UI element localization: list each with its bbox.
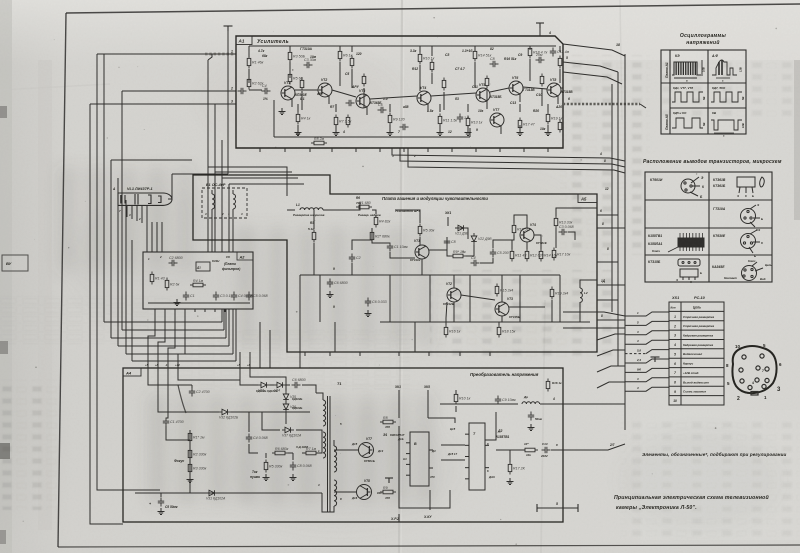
wire — [395, 210, 420, 223]
DIP pins — [680, 233, 702, 251]
wire — [335, 125, 337, 129]
wire — [455, 228, 468, 239]
wire — [398, 514, 400, 522]
wire net 3 — [111, 159, 192, 161]
wire — [239, 372, 241, 380]
wire — [370, 96, 417, 99]
wire net 1 to A1 pin 1 — [104, 53, 236, 55]
wire — [455, 390, 457, 394]
resistor A1 bottom 7 — [518, 118, 522, 131]
wire — [447, 217, 449, 226]
wire target to cable — [227, 30, 229, 54]
wire vidicon pin — [131, 205, 133, 219]
ground — [528, 424, 535, 431]
resistor R9 — [450, 254, 466, 258]
wire pin — [154, 309, 156, 312]
capacitor — [457, 114, 463, 123]
wire riser 5 to A2 — [232, 309, 234, 354]
diode V33 — [258, 382, 270, 388]
wire — [580, 280, 597, 288]
deflection coil L2 — [233, 194, 236, 209]
wire — [534, 235, 541, 249]
wire — [158, 372, 219, 412]
resistor A1 mid 5 — [442, 78, 446, 91]
shield terminal target — [224, 26, 233, 31]
wire — [529, 46, 531, 48]
inductor L1 — [300, 208, 323, 210]
wire — [431, 73, 433, 84]
wire — [333, 440, 335, 446]
wire — [547, 104, 549, 112]
shielded cable into A1 — [205, 53, 234, 55]
wire — [297, 125, 299, 129]
wire — [269, 330, 271, 368]
wire riser 6 to A2 — [235, 309, 237, 361]
wire v x215 — [214, 104, 216, 252]
wire — [335, 104, 337, 112]
wire — [239, 352, 241, 368]
capacitor — [349, 254, 355, 263]
capacitor C4 — [471, 260, 480, 266]
ground — [295, 129, 302, 136]
wire — [467, 125, 469, 129]
wire — [319, 275, 321, 322]
transistor VT2 — [447, 288, 461, 302]
wire — [559, 46, 561, 52]
wire — [447, 248, 450, 256]
capacitor — [346, 100, 355, 106]
wire — [328, 96, 330, 104]
wire feed 3 — [625, 331, 669, 335]
wire — [334, 449, 358, 451]
ground — [387, 129, 394, 136]
diode V32 — [219, 409, 231, 415]
wire — [287, 209, 295, 211]
wire — [285, 412, 287, 424]
resistor A1 top 7 — [528, 46, 532, 59]
shielded cable out — [563, 103, 640, 106]
wire — [289, 62, 291, 78]
resistor A1 top 3 — [338, 49, 342, 62]
capacitor C8 — [490, 61, 499, 67]
wire pin — [398, 352, 400, 356]
wire — [427, 104, 429, 112]
wire pin — [547, 148, 549, 152]
pinout drawing КТ630 — [741, 230, 761, 253]
wire — [248, 69, 250, 83]
wire pin — [459, 352, 461, 356]
wire — [526, 242, 528, 249]
wire — [510, 449, 525, 451]
wire riser 2 to A2 — [225, 309, 227, 338]
wire pin — [164, 309, 166, 312]
wire video feed — [625, 353, 646, 355]
wire — [288, 452, 293, 454]
resistor R5 — [418, 224, 422, 237]
wire right bus 2 — [617, 72, 619, 366]
wire — [419, 46, 421, 50]
wire — [297, 104, 299, 112]
wire — [97, 53, 104, 55]
wire — [232, 190, 234, 194]
wire — [431, 93, 476, 96]
wire — [597, 214, 618, 216]
ground — [437, 129, 444, 136]
wire net 4 to A1 — [90, 103, 236, 105]
wire — [493, 235, 514, 248]
wire — [259, 322, 261, 368]
ground — [290, 474, 297, 481]
wire — [559, 69, 561, 83]
resistor A1 bottom 3 — [346, 115, 350, 128]
wire staircase h3 — [122, 329, 224, 331]
wire feed 7 — [625, 368, 669, 372]
resistor R9 — [380, 490, 396, 494]
resistor A2 R1 — [150, 272, 154, 285]
wire left bus v5 — [125, 200, 127, 354]
wire — [399, 488, 450, 508]
IC D1 К155ЛА3 — [406, 432, 433, 486]
resistor R11 — [546, 379, 550, 392]
resistor R6 — [272, 451, 288, 455]
resistor R1 — [356, 205, 372, 209]
capacitor C2 — [327, 279, 333, 288]
wire — [351, 263, 353, 275]
wire — [597, 382, 625, 388]
wire — [427, 390, 429, 418]
wire — [439, 125, 441, 129]
wire — [249, 352, 251, 368]
wire — [474, 46, 476, 50]
wire — [248, 412, 250, 432]
wire middle rail — [300, 274, 560, 276]
wire — [249, 444, 258, 453]
wire pin — [204, 309, 206, 312]
wire — [490, 88, 509, 92]
wire — [352, 240, 372, 250]
wire — [323, 202, 360, 210]
capacitor C9 — [495, 396, 501, 405]
wire — [485, 412, 496, 440]
wire — [501, 275, 503, 302]
wire — [429, 490, 431, 510]
wire vidicon pin — [121, 205, 123, 215]
wire — [419, 65, 421, 91]
wire — [453, 302, 455, 322]
wire A2 to A4 — [158, 309, 165, 368]
wire A2 to A4 — [168, 309, 175, 368]
wire — [597, 227, 625, 229]
wire — [556, 208, 597, 216]
wire left bus v6 — [131, 240, 133, 361]
wire — [579, 302, 581, 322]
transistor VT1 — [281, 86, 295, 100]
resistor A1 mid 4 — [362, 74, 366, 87]
wire — [414, 322, 416, 352]
T1 secondary winding 2 — [334, 480, 337, 506]
wire — [563, 62, 618, 72]
wire 18 — [563, 44, 625, 56]
wire — [551, 300, 553, 322]
ground — [263, 474, 270, 481]
resistor A1 bottom 6 — [466, 116, 470, 129]
resistor R13 — [554, 216, 558, 229]
wire — [466, 245, 474, 256]
capacitor C8 — [290, 462, 296, 471]
transistor VT1 — [415, 245, 429, 259]
wire to middle block — [208, 167, 287, 196]
wire pin — [355, 148, 357, 152]
wire — [446, 302, 447, 325]
block A5 box (blanking and sensitivity modulation board) — [193, 175, 597, 352]
wire — [461, 295, 495, 300]
capacitor C2 — [189, 388, 195, 397]
wire pin — [284, 148, 286, 152]
wire — [597, 299, 618, 301]
wire pin — [523, 148, 525, 152]
block A2 box (filter board) — [143, 252, 253, 309]
wire — [455, 406, 457, 412]
capacitor C5 — [158, 498, 164, 507]
IC D2 К155ТВ1 — [465, 423, 489, 490]
wire — [496, 449, 510, 451]
resistor R15 — [495, 284, 499, 297]
wire — [250, 372, 286, 385]
resistor R8 — [311, 141, 327, 145]
capacitor C5 — [490, 249, 496, 258]
wire pin — [304, 352, 306, 356]
wire — [597, 261, 618, 263]
resistor A1 top 8 — [558, 56, 562, 69]
T1 secondary winding 1 — [334, 446, 337, 472]
wire — [178, 372, 258, 385]
T1 primary winding lower — [323, 432, 326, 458]
wire left bus v1 — [103, 54, 105, 322]
wire pin — [428, 352, 430, 356]
resistor A1 bottom 1 — [296, 112, 300, 125]
wire — [474, 62, 476, 88]
wire — [389, 275, 391, 322]
wire staircase h4 — [118, 345, 229, 347]
wire — [519, 125, 521, 129]
resistor A1 bottom 2 — [334, 115, 338, 128]
resistor A2 R4 — [190, 283, 206, 287]
capacitor C9 — [536, 57, 545, 63]
wire right bus main — [624, 54, 626, 430]
scale bar — [537, 504, 578, 512]
wire — [332, 90, 356, 97]
wire — [500, 126, 502, 134]
shield terminal — [385, 478, 393, 483]
capacitor C6 — [292, 382, 301, 388]
wire middle rail 2 — [380, 321, 590, 323]
wire — [441, 444, 465, 446]
wire — [156, 222, 158, 252]
block A4 box (voltage converter) — [123, 368, 563, 522]
wire staircase h1 — [104, 321, 222, 323]
wire — [486, 90, 488, 108]
wire — [339, 46, 341, 50]
wire — [563, 72, 622, 84]
wire feed 2 — [625, 321, 669, 325]
pinout table — [645, 172, 772, 282]
wire — [597, 350, 625, 356]
wire — [208, 54, 212, 60]
wire pin — [475, 148, 477, 152]
wire — [509, 450, 511, 462]
connector XS1 РС-10 table — [669, 302, 724, 405]
wire — [172, 173, 228, 175]
capacitor A2 C2 — [169, 260, 178, 266]
wire — [519, 94, 521, 102]
resistor A1 bottom 4 — [388, 113, 392, 126]
wire — [509, 306, 545, 308]
resistor A1 mid 3 — [300, 78, 304, 91]
resistor R2 — [370, 230, 374, 243]
wire — [222, 177, 298, 179]
wire right bus 3 — [611, 84, 613, 312]
diode V35 — [283, 391, 289, 403]
transistor VT4 — [520, 228, 534, 242]
resistor R11 — [510, 249, 514, 262]
wire — [286, 384, 290, 386]
wire pin — [147, 368, 149, 372]
diode V22 — [471, 233, 477, 245]
resistor A1 bottom 8 — [546, 112, 550, 125]
ground — [327, 291, 334, 298]
resistor A1 top 6 — [473, 49, 477, 62]
wire — [597, 284, 625, 286]
wire — [467, 104, 469, 112]
capacitor C4 — [246, 434, 252, 443]
wire vidicon pin — [146, 205, 148, 225]
wire pin — [249, 368, 251, 372]
capacitor A2 C3 — [213, 292, 219, 301]
resistor A1 top 4 — [418, 52, 422, 65]
wire — [292, 453, 294, 460]
wire — [443, 92, 445, 110]
wire — [166, 426, 190, 440]
ground — [465, 129, 472, 136]
block A2 label — [237, 252, 253, 260]
wire — [440, 403, 518, 405]
filter module Д1 — [196, 262, 210, 271]
wire outer loop 2 — [90, 104, 123, 524]
diode V21 — [455, 225, 467, 231]
wire — [597, 319, 625, 321]
resistor R5 — [264, 460, 268, 473]
wire — [231, 411, 310, 413]
choke L — [522, 402, 540, 404]
wire — [389, 104, 391, 112]
wire — [514, 215, 527, 228]
shield terminal video — [651, 357, 660, 362]
capacitor C3 — [559, 229, 568, 235]
wire pin — [177, 368, 179, 372]
capacitor A2 C5 — [246, 292, 252, 301]
wire — [428, 418, 455, 423]
capacitor C6 — [378, 107, 387, 113]
wire — [316, 393, 323, 400]
wire — [561, 87, 563, 89]
connector pins — [739, 354, 769, 395]
wire — [431, 46, 433, 50]
resistor R1 — [188, 431, 192, 444]
resistor A1 top 5 — [430, 60, 434, 73]
wire pin — [214, 309, 216, 312]
wire feed 4 — [625, 340, 669, 344]
wire — [285, 385, 287, 391]
resistor A1 top 1 — [247, 56, 251, 69]
wire — [547, 125, 549, 129]
block A5 label — [578, 194, 597, 203]
wire — [299, 275, 301, 352]
wire — [529, 45, 531, 47]
wire — [441, 459, 465, 461]
resistor A1 top 9 — [350, 56, 354, 69]
block A1 label — [236, 36, 252, 45]
diode V36 — [283, 401, 289, 413]
wire riser 4 to A2 — [228, 309, 230, 346]
wire — [211, 190, 213, 194]
diode V34 — [274, 382, 286, 388]
wire A1 out a — [392, 148, 625, 161]
wire — [322, 493, 327, 512]
wire feed 6 — [625, 359, 669, 363]
wire — [248, 46, 250, 56]
wire — [539, 28, 541, 36]
wire — [151, 222, 153, 252]
capacitor — [400, 124, 409, 130]
T1 primary winding upper — [323, 400, 326, 426]
wire — [372, 228, 390, 243]
block A1 box (amplifier) — [236, 36, 563, 148]
wire — [559, 46, 561, 50]
capacitor C3 — [304, 62, 313, 68]
deflection coil L1 — [212, 194, 215, 209]
vidicon tube VL1 ЛИ437 — [118, 193, 172, 205]
wire — [474, 46, 476, 51]
wire — [227, 54, 229, 174]
block A4 label — [123, 368, 141, 376]
resistor A1 mid 2 — [288, 72, 292, 85]
wire pin — [259, 148, 261, 152]
wire — [265, 453, 267, 458]
wire v x208 — [207, 60, 209, 252]
wire left bus v2 — [121, 91, 123, 330]
wire feed 8 — [625, 378, 669, 382]
wire A1 out b — [400, 148, 625, 167]
wire staircase h6 — [132, 360, 236, 362]
resistor R18* — [522, 448, 538, 452]
resistor R17 — [552, 248, 556, 261]
wire — [529, 59, 531, 81]
wire — [439, 104, 441, 112]
wire — [262, 412, 280, 430]
wire — [299, 352, 301, 368]
wire — [568, 232, 575, 240]
diode V31 — [206, 490, 218, 496]
wire pin — [451, 148, 453, 152]
ground — [279, 108, 286, 115]
wire — [453, 275, 455, 288]
wire E1 pin — [232, 209, 234, 252]
wire — [551, 449, 563, 451]
wire — [429, 275, 431, 322]
capacitor A2 C4 — [231, 292, 237, 301]
wire riser 1 to A2 — [221, 309, 223, 322]
wire staircase h2 — [111, 337, 226, 339]
